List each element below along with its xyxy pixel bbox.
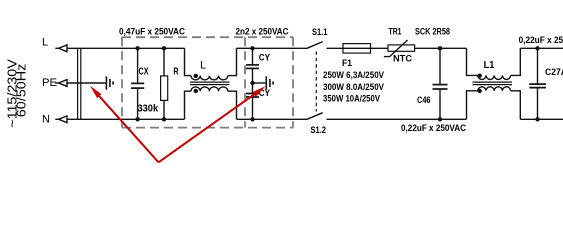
terminal arrow L <box>55 45 67 52</box>
svg-text:60/50Hz: 60/50Hz <box>13 64 28 118</box>
choke L phase dot bottom <box>194 89 198 93</box>
junction C27A bottom <box>535 117 539 121</box>
svg-text:TR1: TR1 <box>389 26 402 36</box>
wire N right segment <box>520 118 563 120</box>
choke L1 phase dot bottom <box>478 89 482 93</box>
choke L core <box>190 82 230 85</box>
connector double line <box>78 48 81 119</box>
ground PE <box>106 76 113 89</box>
capacitor CY top <box>246 48 259 83</box>
choke L1 core <box>473 82 513 85</box>
svg-text:R: R <box>173 66 179 77</box>
wire L line middle segment <box>237 47 308 49</box>
svg-text:NTC: NTC <box>393 53 413 63</box>
svg-text:S1.2: S1.2 <box>311 125 327 135</box>
junction CY bottom <box>250 117 254 121</box>
capacitor C46 <box>433 48 448 119</box>
svg-text:300W 8.0A/250V: 300W 8.0A/250V <box>323 82 384 92</box>
choke L phase dot top <box>194 74 198 78</box>
wire PE line <box>67 82 106 84</box>
svg-text:SCK 2R58: SCK 2R58 <box>415 27 450 37</box>
svg-text:0,47uF x 250VAC: 0,47uF x 250VAC <box>119 26 185 36</box>
svg-text:2n2 x 250VAC: 2n2 x 250VAC <box>236 26 289 36</box>
svg-text:S1.1: S1.1 <box>312 27 328 37</box>
label mains rating <box>4 59 28 128</box>
switch S1.2 <box>307 113 323 120</box>
wire N line middle segment <box>237 118 308 120</box>
junction C46 bottom <box>438 117 442 121</box>
junction C27A top <box>535 46 539 50</box>
choke L top winding <box>185 48 237 80</box>
svg-text:250W 6,3A/250V: 250W 6,3A/250V <box>323 70 384 80</box>
svg-text:L1: L1 <box>484 60 495 71</box>
switch link dashed <box>315 52 317 112</box>
red annotation arrow right <box>159 94 255 162</box>
choke L bottom winding <box>185 87 237 119</box>
svg-text:350W 10A/250V: 350W 10A/250V <box>323 93 380 103</box>
junction CY top <box>250 46 254 50</box>
junction R bottom <box>162 117 166 121</box>
svg-text:F1: F1 <box>342 58 352 68</box>
wire N after S1.2 <box>327 118 467 120</box>
wire N line left segment <box>67 118 185 120</box>
capacitor C27A <box>529 48 546 119</box>
choke L1 bottom winding <box>467 87 521 120</box>
svg-text:L: L <box>200 60 206 72</box>
svg-text:0,22uF x 250VAC: 0,22uF x 250VAC <box>401 123 466 133</box>
junction C46 top <box>438 46 442 50</box>
svg-text:N: N <box>42 113 50 125</box>
dashed EMI filter box <box>122 37 293 127</box>
junction CX top <box>135 46 139 50</box>
svg-text:0,22uF x 250VAC: 0,22uF x 250VAC <box>519 35 563 45</box>
resistor R <box>161 48 168 119</box>
svg-text:CX: CX <box>139 66 149 77</box>
switch S1.1 <box>307 42 323 49</box>
ground CY <box>266 76 273 89</box>
svg-text:CY: CY <box>259 52 270 62</box>
wire L after S1.1 <box>327 47 389 49</box>
wire L right segment <box>520 47 563 49</box>
svg-text:C27A: C27A <box>545 67 563 77</box>
junction CX bottom <box>135 117 139 121</box>
svg-text:L: L <box>42 37 48 49</box>
junction R top <box>162 46 166 50</box>
capacitor CY bottom <box>246 83 259 119</box>
thermistor TR1 body <box>384 40 415 57</box>
capacitor CX <box>131 48 144 119</box>
terminal arrow PE <box>55 80 67 87</box>
red annotation arrow left <box>90 86 266 163</box>
choke L1 top winding <box>467 48 521 79</box>
wire CY ground stub <box>253 82 266 84</box>
svg-text:330k: 330k <box>138 104 159 115</box>
choke L1 phase dot top <box>478 74 482 78</box>
fuse F1 <box>343 44 371 54</box>
svg-text:C46: C46 <box>417 95 431 105</box>
wire L line left segment <box>67 47 185 49</box>
terminal arrow N <box>55 116 67 123</box>
junction CY midpoint ground tap <box>250 81 254 85</box>
svg-text:PE: PE <box>42 77 57 89</box>
wire L NTC to L1 <box>415 47 467 49</box>
